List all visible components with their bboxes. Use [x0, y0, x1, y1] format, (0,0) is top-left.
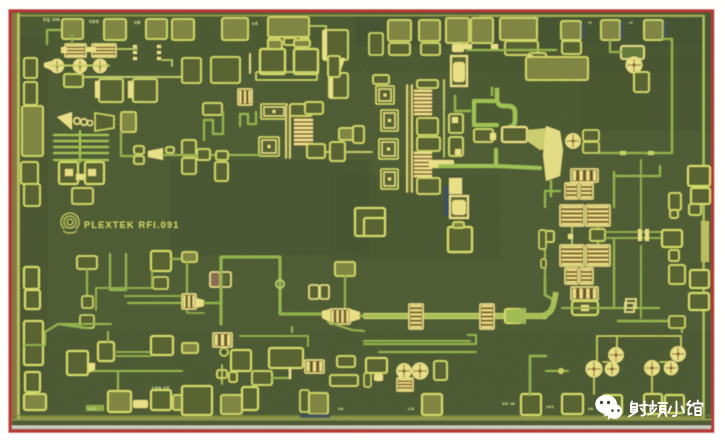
series box BB3	[80, 315, 94, 328]
right pad RE7	[689, 293, 709, 310]
interstage pad	[328, 56, 340, 77]
series cap box b	[449, 137, 463, 156]
main output transmission line	[364, 314, 546, 318]
wire bias bar down	[186, 262, 188, 304]
wire BP2 down	[344, 276, 346, 309]
left pad LL3 tall	[24, 321, 43, 365]
wire center down	[291, 327, 293, 332]
input pad lower b	[24, 184, 40, 206]
small stub f4	[166, 147, 174, 153]
connector BL3	[89, 363, 95, 372]
via stitch column a	[133, 45, 137, 48]
right bright strip	[701, 221, 709, 262]
spiral inductor L4	[381, 110, 398, 131]
output pad row a	[339, 128, 358, 140]
mixer big striped cap B2	[586, 245, 610, 266]
elbow mark	[162, 60, 172, 66]
link below P9	[464, 44, 472, 49]
cap strap CA	[268, 40, 282, 49]
stub filter finger 3	[54, 146, 108, 148]
taper F1 out	[196, 298, 204, 308]
via circle below BC1	[220, 348, 228, 356]
bottom edge second line	[13, 415, 711, 417]
bond pad P10	[471, 18, 493, 43]
meander line M2	[240, 112, 256, 126]
mixer left stub	[542, 231, 554, 242]
TL shunt cap S2	[480, 304, 494, 329]
bond pad P2	[104, 19, 126, 40]
right pad RE2	[691, 188, 710, 204]
FET cell Q14	[673, 349, 684, 360]
box RT1	[151, 251, 171, 271]
meander line M1	[204, 112, 223, 140]
TL series box	[505, 309, 522, 323]
bias route T1	[96, 271, 152, 310]
right small RE5	[670, 210, 678, 218]
input arrow taper	[44, 61, 51, 70]
pad BR1	[562, 394, 583, 414]
small MIM cap	[238, 89, 252, 105]
link LK	[133, 400, 148, 408]
FET Q5 ladder top	[414, 89, 432, 116]
bottom mixer wire	[598, 307, 625, 309]
text vd2 highlighted	[86, 405, 104, 411]
FET cell Q7	[628, 59, 640, 71]
mixer left lower elbow	[545, 279, 554, 300]
component row dark pad	[474, 129, 493, 142]
matching taper T1	[330, 58, 345, 70]
bus bar below CA CB	[256, 72, 317, 80]
stub filter comb spine	[79, 131, 81, 162]
small matching element	[353, 126, 364, 143]
taper F2 left	[322, 309, 330, 322]
left pads mid a	[182, 140, 196, 156]
shunt cap CA	[260, 49, 285, 74]
bond pad P8	[419, 20, 440, 41]
mixer bottom striped cap	[571, 287, 598, 300]
corner cap box	[364, 218, 385, 236]
net wire top a	[597, 336, 681, 364]
pad BR4	[665, 395, 684, 413]
series box BB2	[82, 296, 93, 308]
right lower box a	[669, 316, 685, 328]
feed wire to stage1	[196, 154, 260, 156]
striped cap BC4	[305, 360, 324, 373]
spiral inductor L5	[379, 139, 398, 159]
left pads mid b	[182, 158, 196, 174]
input block pad	[121, 112, 136, 132]
wire q cluster a	[603, 361, 609, 363]
box BM1	[366, 358, 387, 373]
bias pad BP2	[335, 262, 355, 276]
TL curved riser to mixer	[524, 292, 556, 316]
bond pad P3	[146, 19, 167, 39]
substrate dark patch top pads band	[355, 13, 705, 47]
pad BD4 narrow	[300, 390, 309, 412]
lower S-bend trace	[440, 150, 496, 166]
node box	[626, 299, 636, 308]
bias pad right large	[526, 57, 588, 80]
right pad RE6	[690, 270, 709, 288]
MIM capacitor C1	[65, 44, 86, 57]
watermark text 射频小馆 (drawn as vector strokes)	[629, 401, 703, 417]
spiral inductor L2	[259, 137, 279, 156]
attenuator dot 1	[74, 118, 80, 124]
left edge pad column A	[24, 58, 37, 78]
matching box right	[669, 265, 685, 284]
vertical feed to top pads	[443, 80, 445, 110]
wire to stage1 gate	[163, 154, 196, 156]
cap strap CB	[294, 40, 310, 47]
bias route T4	[24, 332, 45, 345]
input taper	[57, 112, 72, 130]
bottom pad of block	[203, 103, 222, 115]
left pad LL5 bright	[24, 394, 46, 410]
output pad row b	[330, 142, 345, 161]
mixer big striped cap A2	[586, 205, 610, 226]
bottom pad of block b	[290, 104, 312, 116]
series cap box a	[449, 114, 463, 133]
box BC6	[252, 371, 272, 385]
bias feed horizontal	[599, 152, 672, 154]
TL shunt cap S1	[409, 304, 423, 329]
shunt pad below	[215, 162, 228, 181]
wire loop bottom right region	[562, 307, 618, 309]
input pad lower a	[21, 162, 38, 184]
TL output taper	[506, 308, 526, 324]
drain pad D2 bracket	[329, 73, 348, 98]
node circle on loop	[276, 280, 284, 288]
left pad LL2	[25, 290, 40, 309]
striped cap BM4	[397, 378, 413, 391]
bond pad P4	[172, 19, 194, 40]
FET cell Q11	[611, 350, 622, 361]
watermark wechat logo big bubble	[595, 395, 617, 417]
seal ring right bright edge	[703, 16, 705, 418]
wire Q7 left	[610, 40, 621, 52]
wire BB1 down	[86, 269, 88, 296]
double cap DC2	[309, 285, 319, 299]
wire wheels row	[50, 65, 109, 67]
bias route T2	[125, 295, 180, 297]
pad BR3	[644, 394, 662, 414]
blue fringe P14	[663, 22, 667, 39]
seal ring top segment	[480, 15, 704, 17]
bias line y77	[84, 76, 182, 78]
bias pad cluster b	[211, 57, 240, 83]
source via SV1	[452, 44, 464, 52]
substrate shading	[12, 13, 711, 73]
left pad LL1	[24, 267, 39, 289]
gate feed line	[249, 54, 251, 73]
cap box center	[355, 208, 385, 236]
bond pad P14	[644, 20, 663, 40]
horizontal link y324	[58, 323, 111, 325]
net wire top b	[616, 336, 618, 349]
shunt pad below comb	[72, 188, 93, 204]
bias route T3	[240, 336, 308, 346]
bias cap box E1	[59, 162, 78, 184]
bias cap box E2	[85, 162, 104, 184]
stub filter finger 4	[54, 152, 108, 154]
right small RE4	[669, 193, 681, 210]
pad row bottom b	[151, 390, 171, 410]
vertical net right x641 lower	[640, 246, 642, 318]
cap C5 green	[621, 46, 644, 59]
link below P10	[491, 44, 498, 49]
blue fringe by SV4	[444, 186, 449, 216]
right vertical net	[671, 40, 673, 153]
bias pad cluster a	[182, 58, 201, 83]
drain pad Q4 top	[305, 102, 323, 114]
source via taper SV3	[449, 178, 462, 194]
pad BM7	[521, 394, 541, 415]
FET cell Q13	[607, 364, 617, 374]
spiral inductor L1	[261, 104, 287, 119]
element right	[173, 395, 182, 410]
box RT2	[153, 277, 168, 289]
mixer center via dot	[568, 234, 573, 239]
right edge slot a	[539, 230, 546, 249]
component top small a	[583, 130, 599, 141]
shunt cap CB	[294, 49, 318, 74]
tick pair on IF line	[638, 229, 642, 241]
link between E1 E2	[76, 174, 84, 180]
drain pad Q6 below	[417, 178, 440, 194]
gate feed vertical x444	[443, 111, 445, 157]
FET cell Q16	[666, 363, 676, 373]
tick on bias feed a	[620, 151, 626, 155]
IF output line pair a	[605, 231, 668, 233]
decoupling cap under P6 b	[284, 38, 296, 45]
FET cell Q1	[52, 61, 62, 71]
small element left edge x369	[369, 33, 383, 55]
mixer inter-row link a	[571, 226, 573, 245]
decoupling cap under P6 a	[268, 38, 280, 45]
mixer left vertical wire	[544, 243, 546, 279]
gate bias pad	[64, 74, 83, 87]
FET Q4 finger ladder	[294, 118, 313, 146]
matching box	[634, 72, 649, 92]
mixer left elbow wire	[545, 191, 560, 207]
wire P1 down	[71, 35, 73, 44]
wire stage1 out	[325, 151, 372, 153]
substrate dark patch center	[330, 175, 500, 260]
hairpin trace	[110, 254, 126, 290]
wire F1 to loop	[204, 302, 221, 304]
pad BR2	[603, 395, 622, 414]
MIM capacitor C2	[92, 44, 116, 57]
gate bus stage2	[406, 85, 413, 192]
cap under P8	[421, 43, 440, 55]
source via stack SV2	[451, 56, 467, 86]
right pad RE1	[688, 166, 710, 186]
taper f3	[148, 148, 163, 160]
mixer right vertical b	[613, 238, 615, 306]
bottom edge light band	[12, 426, 711, 429]
wire q down b	[651, 375, 653, 394]
double wire right	[114, 351, 151, 353]
double cap DC1	[210, 272, 220, 287]
via stitch column b	[157, 45, 161, 48]
cap under P7	[389, 43, 410, 55]
drain pad Q4 bottom	[307, 144, 325, 158]
wire C2 right	[114, 48, 137, 50]
right edge slot b	[541, 259, 546, 268]
MIM cap C4 with left bracket	[133, 79, 157, 102]
FET cell Q9	[399, 366, 410, 377]
vertical net x641	[640, 160, 642, 229]
left pad LL4	[25, 372, 40, 392]
box BD3	[242, 387, 258, 410]
bottom edge olive line	[13, 419, 711, 421]
mixer small caps row2	[565, 268, 578, 284]
big box BC3	[269, 348, 303, 368]
via stub left of C1	[61, 47, 67, 53]
big matching loop	[221, 257, 330, 324]
wire P6 to D1	[309, 26, 326, 36]
FET cell Q10	[414, 365, 426, 377]
hook at end	[468, 335, 476, 344]
S-bend trace upper	[497, 88, 515, 127]
seal ring brown left strip	[13, 13, 18, 418]
spiral inductor L6	[381, 169, 398, 189]
radial stub blob	[543, 126, 563, 181]
tick on bias feed b	[648, 151, 654, 155]
FET Q6 ladder bottom	[414, 151, 432, 178]
box BC2	[231, 350, 251, 371]
drain pad Q5 above	[417, 80, 438, 88]
photo grain	[0, 0, 1, 1]
cap under P12	[562, 41, 581, 54]
drain pad D1 bracket	[323, 30, 348, 60]
FET cell Q12	[588, 363, 600, 375]
lower S-bend trace b	[496, 166, 540, 168]
mixer top-right wire	[614, 166, 660, 176]
wire y371	[93, 370, 182, 372]
diag wires lower right	[328, 322, 364, 331]
box BD6	[330, 375, 358, 386]
gate bus vertical line	[285, 106, 291, 158]
right loop trace	[530, 356, 546, 395]
wire RT1 right	[171, 258, 182, 260]
Plextek logo roundel	[61, 213, 79, 231]
stub filter finger 2	[54, 140, 108, 142]
bottom mixer wire b	[634, 307, 659, 309]
series component a	[197, 149, 210, 160]
net wire top c	[680, 336, 682, 348]
pad BD5	[309, 393, 328, 414]
wire q down a	[593, 376, 595, 394]
bond pad P1	[62, 19, 83, 39]
pad row bottom: bright pad	[108, 391, 131, 412]
mixer center pad	[590, 229, 605, 241]
wide taper to stub	[527, 128, 560, 150]
elbow trace by P11	[491, 88, 493, 95]
mixer right vertical a	[613, 172, 615, 207]
bond pad P9	[446, 18, 469, 43]
decoupling cap under P6 c	[300, 38, 309, 45]
left edge pad column B	[24, 82, 37, 105]
wire comb to right	[121, 132, 134, 156]
series element f1	[134, 146, 144, 154]
drain pad shared mid b	[417, 137, 440, 151]
right pad RE3	[689, 204, 701, 215]
long trace A y341	[364, 340, 470, 342]
FET block F2	[330, 309, 350, 324]
shunt cap with strap	[448, 227, 472, 252]
mixer small caps row2b	[580, 268, 593, 284]
substrate dark patch left margin	[20, 36, 48, 406]
bond pad P12	[561, 21, 581, 40]
FET cell Q2	[75, 61, 85, 71]
U trace top	[107, 332, 109, 342]
pad below P11	[505, 41, 538, 55]
wire via stack to bias pad	[467, 49, 556, 51]
IF sub pad	[669, 250, 679, 261]
FET cell Q15	[647, 363, 658, 374]
node square on wire	[625, 303, 634, 312]
mixer bottom rounded box	[572, 301, 598, 315]
series element f2	[134, 156, 144, 164]
attenuator dot 3	[87, 120, 92, 125]
spiral inductor L3	[376, 86, 394, 104]
source via stack SV4	[450, 196, 468, 218]
drain pad shared mid a	[417, 118, 438, 135]
small comb top	[373, 75, 389, 84]
box BL1	[67, 351, 88, 375]
bias bar pad	[182, 252, 197, 262]
bright bar left	[182, 343, 198, 353]
wire pad P14 to output net	[663, 39, 672, 153]
stub filter finger 1	[54, 134, 108, 136]
pad BM6 speckled	[422, 394, 442, 415]
box BM5	[434, 361, 447, 380]
FET block F1	[182, 294, 196, 309]
connector cluster	[217, 370, 227, 378]
diagonal trace to corner	[45, 324, 87, 345]
S meander left lobe	[474, 101, 497, 125]
FET cell Q3	[95, 61, 105, 71]
wire from SQ ON pad	[47, 30, 63, 44]
pad BD2	[221, 395, 242, 414]
stub to BC3	[289, 368, 292, 378]
big bottom rectangle trace	[618, 321, 682, 332]
wire top elbow	[455, 96, 470, 111]
box BL4	[151, 336, 173, 355]
input matching taper dark	[95, 113, 114, 131]
box BL2	[98, 342, 114, 361]
wire down x118	[117, 372, 119, 392]
mid bright bar	[429, 160, 454, 168]
IF pad	[662, 230, 682, 247]
long trace B y352	[379, 351, 476, 353]
MIM cap C3 with left bracket	[99, 79, 123, 102]
box BC5	[337, 356, 355, 367]
blue fringe P13	[620, 22, 624, 39]
seal ring bright left edge	[17, 14, 20, 419]
bond pad P6 wide	[268, 17, 309, 37]
blue shadow under BD5	[300, 414, 330, 418]
mixer big striped cap A1	[560, 205, 584, 226]
watermark wechat logo small bubble	[606, 404, 623, 420]
wire q cluster b	[660, 361, 668, 363]
net wire mid	[546, 370, 568, 372]
wire BC6 right	[272, 377, 289, 379]
via stub between C1 C2	[86, 47, 96, 52]
mixer small caps row1b	[580, 183, 593, 199]
mixer big striped cap B1	[560, 245, 584, 266]
